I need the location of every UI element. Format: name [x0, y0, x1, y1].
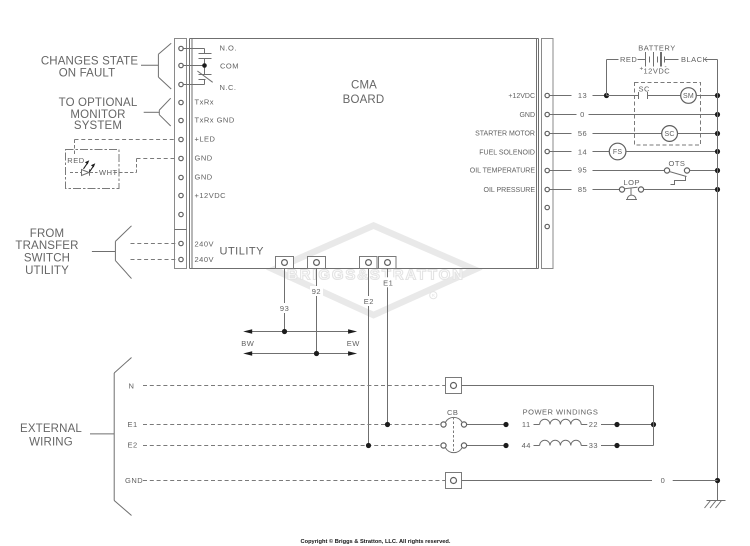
svg-text:SYSTEM: SYSTEM: [74, 120, 122, 132]
svg-text:95: 95: [578, 166, 587, 175]
svg-text:-: -: [665, 63, 667, 70]
svg-text:STARTER MOTOR: STARTER MOTOR: [475, 131, 535, 138]
svg-text:14: 14: [578, 148, 587, 157]
board connector E2: [360, 257, 378, 269]
svg-text:CMA: CMA: [351, 80, 377, 92]
junction LOP bus: [715, 187, 720, 192]
svg-text:BOARD: BOARD: [343, 94, 385, 106]
CMA board label: [343, 80, 385, 107]
wire 56 from STARTER MOTOR terminal: [550, 133, 662, 135]
fuel solenoid FS: [609, 143, 626, 160]
junction E1 winding: [503, 422, 508, 427]
svg-text:BLACK: BLACK: [681, 55, 708, 64]
svg-text:CHANGES STATE: CHANGES STATE: [41, 56, 139, 68]
wire RED lead to +LED: [75, 140, 177, 155]
junction FS bus: [715, 149, 720, 154]
svg-text:OIL PRESSURE: OIL PRESSURE: [484, 187, 536, 194]
terminal spare right 2: [545, 224, 549, 228]
terminal +12VDC: [179, 193, 183, 197]
wire LOP to bus: [644, 189, 718, 191]
power winding 11-22: [534, 419, 588, 424]
terminal spare right 1: [545, 205, 549, 209]
junction OTS bus: [715, 168, 720, 173]
terminal 240V line 1: [179, 241, 183, 245]
label TO OPTIONAL MONITOR SYSTEM: [59, 97, 138, 132]
brace to TxRx terminals: [144, 98, 171, 126]
wire 14 from FUEL SOLENOID terminal: [550, 151, 610, 153]
low oil pressure switch LOP: [619, 187, 643, 200]
svg-text:E1: E1: [383, 278, 393, 287]
svg-text:WIRING: WIRING: [29, 437, 73, 449]
svg-text:TxRx: TxRx: [195, 98, 215, 107]
circuit breaker CB pole 1: [441, 417, 467, 427]
oil temperature switch OTS: [664, 168, 689, 185]
terminal OIL TEMPERATURE pin 95: [545, 168, 549, 172]
connector N: [446, 378, 462, 394]
wire SM to bus: [696, 95, 717, 97]
terminal FUEL SOLENOID pin 14: [545, 149, 549, 153]
board connector 93: [276, 257, 294, 269]
svg-text:+12VDC: +12VDC: [508, 93, 535, 100]
BW routing arrow line: [243, 329, 357, 334]
svg-text:N.C.: N.C.: [220, 83, 237, 92]
terminal N.C.: [179, 82, 183, 86]
wire 240V line 1: [131, 243, 177, 245]
wire E1 riser: [387, 269, 389, 425]
wire OTS to bus: [690, 170, 718, 172]
svg-text:TxRx GND: TxRx GND: [195, 116, 235, 125]
wire GND return to bus: [462, 480, 718, 482]
label FROM TRANSFER SWITCH UTILITY: [15, 228, 78, 277]
svg-text:TO OPTIONAL: TO OPTIONAL: [59, 97, 138, 109]
svg-text:TRANSFER: TRANSFER: [15, 240, 78, 252]
wire 85 from OIL PRESSURE terminal: [550, 189, 620, 191]
wire N field (dashed): [143, 385, 445, 387]
terminal TxRx GND: [179, 118, 183, 122]
svg-text:240V: 240V: [195, 239, 215, 248]
svg-text:+12VDC: +12VDC: [195, 191, 227, 200]
wire 33 to N junction: [601, 445, 654, 447]
terminal 240V line 2: [179, 257, 183, 261]
wire 92 riser: [316, 269, 318, 354]
junction windings N vertical: [651, 422, 656, 427]
junction bus GND return: [715, 478, 720, 483]
SC contact (N.O.): [607, 92, 681, 99]
right terminal strip: [542, 39, 554, 269]
svg-text:E1: E1: [128, 420, 138, 429]
svg-text:EW: EW: [347, 339, 361, 348]
svg-text:BRIGGS&STRATTON: BRIGGS&STRATTON: [287, 267, 463, 284]
svg-text:56: 56: [578, 129, 587, 138]
junction SC bus: [715, 131, 720, 136]
LED D1: [70, 160, 98, 176]
junction SM bus: [715, 93, 720, 98]
svg-text:GND: GND: [125, 476, 143, 485]
wire RED to battery plate: [638, 59, 646, 61]
board connector 92: [308, 257, 326, 269]
CMA board outline: [190, 39, 539, 269]
circuit breaker mechanical tie: [453, 417, 455, 452]
brace to 240V terminals: [92, 226, 132, 279]
terminal OIL PRESSURE pin 85: [545, 187, 549, 191]
wire N to windings common: [462, 385, 654, 387]
wire FS to bus: [626, 151, 718, 153]
svg-text:OIL TEMPERATURE: OIL TEMPERATURE: [470, 168, 536, 175]
junction wire 92 on EW line: [314, 351, 319, 356]
wire 22 to N junction: [601, 424, 654, 426]
svg-text:+LED: +LED: [195, 135, 216, 144]
svg-text:OTS: OTS: [669, 159, 686, 168]
wire 240V line 2: [131, 259, 177, 261]
svg-text:UTILITY: UTILITY: [25, 265, 69, 277]
svg-text:0: 0: [661, 476, 666, 485]
junction E1 riser: [385, 422, 390, 427]
junction 33: [614, 443, 619, 448]
brace external wiring: [90, 358, 132, 516]
svg-text:POWER WINDINGS: POWER WINDINGS: [523, 407, 599, 416]
label EXTERNAL WIRING: [20, 423, 82, 449]
board connector E1: [379, 257, 397, 269]
wire E1 field (dashed): [143, 424, 441, 426]
circuit breaker CB pole 2: [441, 443, 467, 453]
starter motor SM: [681, 88, 697, 104]
terminal GND: [179, 156, 183, 160]
svg-text:44: 44: [522, 441, 531, 450]
connector GND: [446, 473, 462, 489]
junction 22: [614, 422, 619, 427]
starter contactor coil SC: [662, 126, 678, 142]
svg-text:FS: FS: [613, 149, 622, 156]
svg-text:93: 93: [280, 304, 289, 313]
svg-text:FUEL SOLENOID: FUEL SOLENOID: [479, 149, 535, 156]
svg-text:GND: GND: [195, 154, 213, 163]
svg-text:RED: RED: [620, 55, 637, 64]
svg-text:BATTERY: BATTERY: [638, 44, 675, 53]
brace to relay terminals: [141, 43, 171, 89]
svg-text:SM: SM: [683, 93, 694, 100]
battery BT1: [646, 52, 679, 67]
terminal +12VDC pin 13: [545, 93, 549, 97]
terminal GND 2: [179, 175, 183, 179]
wire CB to winding 11: [467, 424, 506, 426]
wire windings common vertical: [653, 386, 655, 446]
EW routing arrow line: [243, 351, 357, 356]
power winding 44-33: [534, 440, 588, 445]
wire label 92: [310, 286, 323, 296]
junction 13 / battery RED: [604, 93, 609, 98]
svg-text:ON FAULT: ON FAULT: [59, 67, 116, 79]
svg-text:LOP: LOP: [624, 178, 641, 187]
svg-text:COM: COM: [220, 62, 239, 71]
LED indicator assembly dashed box: [66, 150, 120, 189]
svg-text:11: 11: [522, 420, 531, 429]
svg-text:BW: BW: [241, 339, 255, 348]
wire 13 from +12VDC terminal: [550, 95, 607, 97]
terminal TxRx: [179, 100, 183, 104]
terminal STARTER MOTOR pin 56: [545, 131, 549, 135]
watermark Briggs & Stratton logo: [274, 226, 475, 316]
wire WHT lead to GND: [114, 159, 177, 173]
svg-text:240V: 240V: [195, 255, 215, 264]
svg-text:RED: RED: [67, 156, 84, 165]
svg-text:E2: E2: [128, 441, 138, 450]
terminal GND pin 0: [545, 112, 549, 116]
left terminal strip: [175, 39, 187, 269]
junction wire 93 on BW line: [282, 329, 287, 334]
svg-text:85: 85: [578, 185, 587, 194]
svg-text:CB: CB: [447, 408, 458, 417]
wire E2 field (dashed): [143, 445, 441, 447]
svg-text:13: 13: [578, 91, 587, 100]
label CHANGES STATE ON FAULT: [41, 56, 139, 80]
svg-text:EXTERNAL: EXTERNAL: [20, 423, 82, 435]
wire GND field (dashed): [143, 480, 445, 482]
bus wire right vertical: [717, 60, 719, 501]
ground symbol: [705, 501, 726, 509]
svg-text:FROM: FROM: [30, 228, 64, 240]
svg-text:SC: SC: [639, 85, 651, 94]
wire E2 riser: [368, 269, 370, 446]
junction E2 winding: [503, 443, 508, 448]
terminal COM: [179, 63, 183, 67]
starter contactor SC dashed enclosure: [635, 83, 701, 146]
svg-text:N: N: [129, 381, 135, 390]
wire label 93: [278, 303, 291, 313]
wire BLACK to bus: [705, 59, 718, 61]
svg-text:0: 0: [580, 110, 585, 119]
wire CB to winding 44: [467, 445, 506, 447]
svg-text:R: R: [432, 293, 436, 298]
junction GND bus: [715, 112, 720, 117]
junction E2 riser: [366, 443, 371, 448]
wire 95 from OIL TEMPERATURE terminal: [550, 170, 665, 172]
svg-text:22: 22: [589, 420, 598, 429]
wire SC coil to bus: [678, 133, 718, 135]
svg-text:Copyright © Briggs & Stratton,: Copyright © Briggs & Stratton, LLC. All …: [301, 538, 451, 545]
svg-text:SWITCH: SWITCH: [24, 252, 70, 264]
wire RED riser to battery: [607, 60, 619, 96]
svg-text:SC: SC: [665, 131, 675, 138]
svg-text:33: 33: [589, 441, 598, 450]
terminal N.O.: [179, 46, 183, 50]
relay contact K1 N.O./COM/N.C.: [184, 49, 213, 85]
wire 93 riser: [284, 269, 286, 332]
svg-text:GND: GND: [195, 173, 213, 182]
terminal spare: [179, 212, 183, 216]
wire label E1: [382, 277, 396, 287]
terminal +LED: [179, 137, 183, 141]
svg-text:N.O.: N.O.: [220, 44, 237, 53]
svg-text:GND: GND: [519, 112, 535, 119]
wire 0 from GND terminal: [550, 114, 718, 116]
svg-text:UTILITY: UTILITY: [220, 246, 265, 258]
wire label E2: [362, 296, 376, 306]
svg-text:92: 92: [312, 287, 321, 296]
svg-text:E2: E2: [364, 297, 374, 306]
